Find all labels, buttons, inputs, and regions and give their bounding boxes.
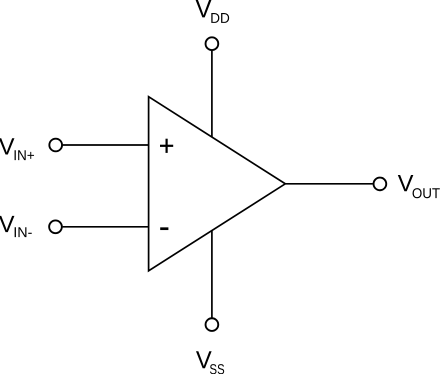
op-amp non-inverting input marker + (160, 139, 173, 153)
node VIN+ label (0, 138, 34, 160)
terminal VIN- (49, 220, 62, 233)
terminal VIN+ (49, 139, 62, 152)
wire VIN- input (63, 226, 149, 228)
node VIN- label (0, 216, 32, 237)
node VOUT label (398, 175, 440, 198)
node VSS label (196, 351, 224, 374)
terminal VDD (206, 37, 219, 50)
node VDD label (196, 0, 230, 23)
wire VSS supply (211, 230, 213, 317)
op-amp U1 (149, 97, 286, 271)
wire VDD supply (211, 51, 213, 138)
wire VIN+ input (63, 144, 149, 146)
wire VOUT output (285, 183, 373, 185)
terminal VOUT (374, 178, 387, 191)
op-amp inverting input marker - (160, 227, 168, 230)
terminal VSS (206, 318, 219, 331)
